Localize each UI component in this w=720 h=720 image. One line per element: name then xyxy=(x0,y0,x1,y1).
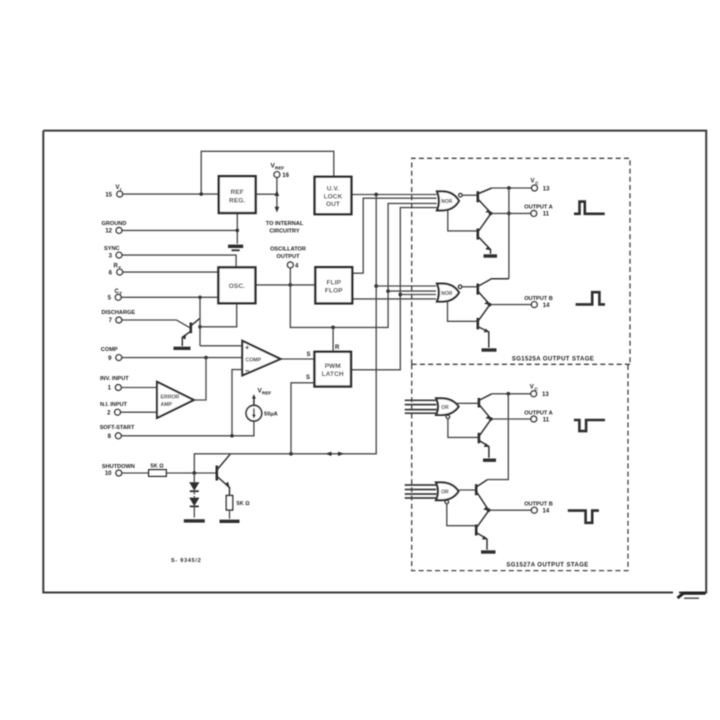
svg-text:OR: OR xyxy=(441,405,449,411)
svg-text:T: T xyxy=(119,291,122,296)
svg-text:11: 11 xyxy=(543,212,550,218)
svg-text:OSCILLATOR: OSCILLATOR xyxy=(270,247,306,253)
svg-text:LATCH: LATCH xyxy=(322,371,344,378)
svg-text:NOR: NOR xyxy=(441,199,453,205)
svg-text:S: S xyxy=(307,352,311,358)
svg-text:5K Ω: 5K Ω xyxy=(151,463,165,469)
svg-text:13: 13 xyxy=(542,392,549,398)
svg-text:OUTPUT A: OUTPUT A xyxy=(524,205,552,211)
svg-text:OUTPUT A: OUTPUT A xyxy=(524,410,552,416)
svg-text:OR: OR xyxy=(441,490,449,496)
svg-text:FLOP: FLOP xyxy=(325,288,343,295)
svg-text:FLIP: FLIP xyxy=(327,280,342,287)
svg-text:SOFT-START: SOFT-START xyxy=(100,425,135,431)
svg-text:CIRCUITRY: CIRCUITRY xyxy=(269,228,300,234)
svg-text:TO INTERNAL: TO INTERNAL xyxy=(266,221,304,227)
svg-text:10: 10 xyxy=(105,471,112,477)
svg-text:S- 9345/2: S- 9345/2 xyxy=(171,558,202,564)
svg-text:SG1525A OUTPUT STAGE: SG1525A OUTPUT STAGE xyxy=(512,357,594,363)
svg-text:INV. INPUT: INV. INPUT xyxy=(100,376,129,382)
svg-text:SHUTDOWN: SHUTDOWN xyxy=(102,464,135,470)
svg-text:SG1527A OUTPUT STAGE: SG1527A OUTPUT STAGE xyxy=(506,563,588,569)
svg-text:SYNC: SYNC xyxy=(104,246,120,252)
svg-text:12: 12 xyxy=(105,229,112,235)
svg-text:OUTPUT: OUTPUT xyxy=(277,254,301,260)
svg-text:U.V.: U.V. xyxy=(327,186,340,193)
svg-text:DISCHARGE: DISCHARGE xyxy=(102,310,136,316)
svg-text:NOR: NOR xyxy=(441,291,453,297)
svg-text:AMP: AMP xyxy=(161,402,173,408)
svg-text:REF: REF xyxy=(275,166,284,171)
svg-text:OUTPUT B: OUTPUT B xyxy=(524,502,553,508)
svg-text:I: I xyxy=(120,187,121,192)
svg-text:REF: REF xyxy=(231,189,244,196)
svg-text:ERROR: ERROR xyxy=(161,395,180,401)
svg-text:REF: REF xyxy=(262,391,271,396)
svg-text:COMP: COMP xyxy=(101,347,118,353)
svg-text:LOCK: LOCK xyxy=(324,193,343,200)
svg-text:COMP: COMP xyxy=(246,358,262,364)
svg-text:14: 14 xyxy=(543,509,550,515)
svg-text:N.I. INPUT: N.I. INPUT xyxy=(100,402,128,408)
svg-text:T: T xyxy=(118,266,121,271)
svg-text:REG.: REG. xyxy=(229,198,245,205)
svg-text:OUT: OUT xyxy=(326,201,340,208)
svg-text:S: S xyxy=(306,375,310,381)
svg-text:11: 11 xyxy=(543,417,550,423)
svg-text:V: V xyxy=(531,179,535,185)
svg-text:50μA: 50μA xyxy=(264,412,278,418)
svg-text:14: 14 xyxy=(543,303,550,309)
svg-text:R: R xyxy=(335,345,340,351)
svg-text:PWM: PWM xyxy=(325,363,341,370)
svg-text:13: 13 xyxy=(543,186,550,192)
svg-text:OUTPUT B: OUTPUT B xyxy=(524,296,553,302)
svg-text:V: V xyxy=(116,185,120,191)
svg-text:5K Ω: 5K Ω xyxy=(237,501,251,507)
svg-text:16: 16 xyxy=(282,173,289,179)
svg-text:GROUND: GROUND xyxy=(102,221,127,227)
svg-text:15: 15 xyxy=(105,192,112,198)
svg-text:V: V xyxy=(530,384,534,390)
svg-text:OSC.: OSC. xyxy=(229,283,245,290)
